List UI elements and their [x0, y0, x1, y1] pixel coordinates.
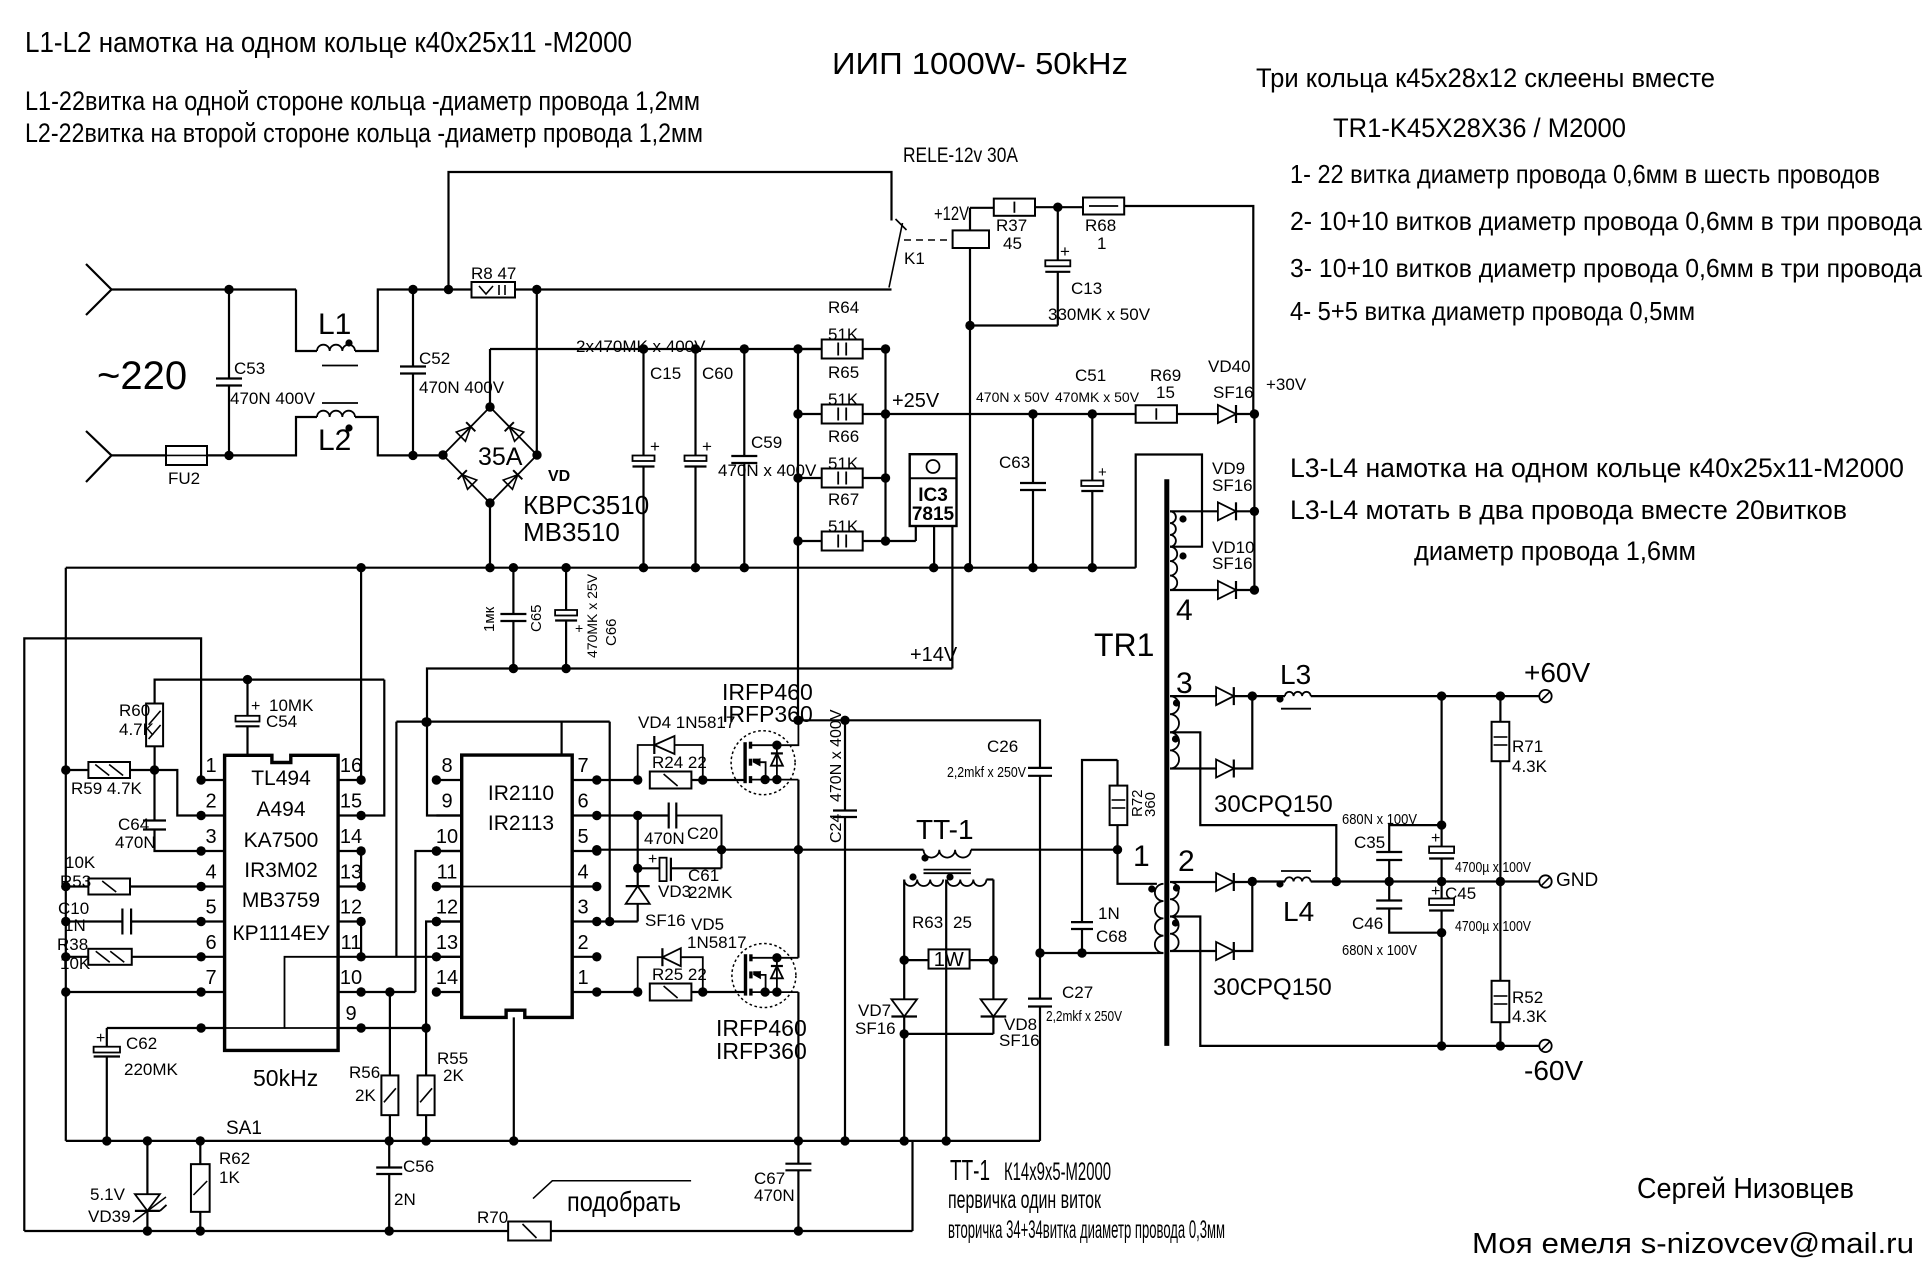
- svg-text:IRFP360: IRFP360: [716, 1038, 807, 1064]
- wire AC top line: [112, 288, 297, 290]
- svg-text:4.7K: 4.7K: [119, 720, 155, 739]
- svg-text:2,2mkf x 250V: 2,2mkf x 250V: [1046, 1008, 1122, 1025]
- svg-text:+: +: [648, 851, 657, 868]
- wire pin9 row to IR2110 pin12: [361, 1027, 426, 1029]
- svg-text:+60V: +60V: [1524, 657, 1590, 688]
- wire pin10 row to IR2110 pin10: [361, 991, 415, 993]
- svg-text:R70: R70: [477, 1208, 508, 1227]
- wire primary bottom row: [1040, 952, 1157, 954]
- transformer TR1 core: [1164, 479, 1169, 1046]
- svg-text:+25V: +25V: [892, 390, 940, 412]
- svg-text:L3-L4 мотать в два провода вме: L3-L4 мотать в два провода вместе 20витк…: [1290, 495, 1847, 525]
- svg-text:470N 400V: 470N 400V: [230, 389, 316, 408]
- wire pin11 row to IR2110 pin13: [361, 956, 460, 958]
- resistor R72: [1116, 825, 1118, 850]
- svg-text:51K: 51K: [828, 454, 859, 473]
- relay switch K1 blade: [889, 223, 903, 288]
- svg-text:L2: L2: [318, 424, 351, 457]
- wire SA1 rail: [66, 1140, 1040, 1142]
- svg-text:MB3759: MB3759: [242, 889, 320, 912]
- svg-text:C59: C59: [751, 433, 782, 452]
- svg-text:ИИП 1000W- 50kHz: ИИП 1000W- 50kHz: [832, 46, 1128, 81]
- svg-text:C54: C54: [266, 712, 297, 731]
- inductor L4: [1252, 880, 1285, 882]
- svg-text:1: 1: [577, 967, 588, 989]
- IR2110 pin stubs right: [572, 779, 597, 781]
- svg-text:4700µ x 100V: 4700µ x 100V: [1455, 918, 1531, 935]
- wire M1 source to M2 drain (half-bridge midpoint): [797, 780, 799, 958]
- svg-text:C65: C65: [528, 604, 545, 632]
- transistor Q1 IRFP460 upper MOSFET: [731, 731, 795, 795]
- svg-text:подобрать: подобрать: [567, 1186, 681, 1217]
- resistor R59: [66, 769, 89, 771]
- svg-text:C26: C26: [987, 737, 1018, 756]
- svg-text:C63: C63: [999, 453, 1030, 472]
- wire relay bypass loop: [449, 172, 892, 290]
- svg-text:C45: C45: [1445, 884, 1476, 903]
- svg-text:470N 400V: 470N 400V: [419, 378, 505, 397]
- svg-text:4700µ x 100V: 4700µ x 100V: [1455, 859, 1531, 876]
- svg-text:TR1-K45X28X36 / М2000: TR1-K45X28X36 / М2000: [1333, 113, 1626, 143]
- capacitor C67: [785, 1163, 811, 1165]
- node AC bottom junctions: [224, 451, 233, 460]
- svg-text:SF16: SF16: [1212, 476, 1253, 495]
- svg-text:C53: C53: [234, 359, 265, 378]
- wire winding2 center tap to -60V row: [1170, 917, 1539, 1046]
- resistor ladder left bus / DC+ drop: [797, 349, 799, 720]
- svg-text:VD40: VD40: [1208, 357, 1251, 376]
- svg-text:7815: 7815: [912, 504, 955, 525]
- svg-text:Моя емеля s-nizovcev@mail.ru: Моя емеля s-nizovcev@mail.ru: [1472, 1228, 1914, 1260]
- svg-text:16: 16: [340, 755, 362, 777]
- diode D1 30CPQ150 upper: [1216, 687, 1234, 705]
- wire winding4 top to VD9: [1170, 510, 1218, 512]
- capacitor C10: [66, 920, 123, 922]
- TR1 winding 1 primary: [1155, 884, 1164, 953]
- wire +14V rail segment over IR2110: [396, 720, 609, 722]
- svg-text:1K: 1K: [219, 1168, 240, 1187]
- svg-text:12: 12: [340, 897, 362, 919]
- svg-text:22MK: 22MK: [688, 883, 733, 902]
- svg-text:6: 6: [205, 932, 216, 954]
- svg-text:VD5: VD5: [691, 915, 724, 934]
- svg-text:R24 22: R24 22: [652, 753, 707, 772]
- svg-text:-60V: -60V: [1524, 1055, 1583, 1086]
- capacitor C66: [565, 568, 567, 610]
- svg-text:Сергей Низовцев: Сергей Низовцев: [1637, 1173, 1854, 1205]
- capacitor C53: [228, 290, 230, 379]
- svg-text:7: 7: [205, 967, 216, 989]
- svg-text:R63: R63: [912, 913, 943, 932]
- svg-text:TT-1: TT-1: [916, 814, 974, 845]
- transformer TT-1 secondary: [904, 880, 943, 887]
- diode VD10: [1218, 581, 1236, 599]
- inductor L2: [317, 411, 355, 417]
- svg-text:TR1: TR1: [1094, 627, 1154, 663]
- svg-text:C62: C62: [126, 1034, 157, 1053]
- wire pins 13-14 tie: [360, 851, 362, 887]
- svg-text:VD4 1N5817: VD4 1N5817: [638, 713, 735, 732]
- wire winding2 bottom to D4: [1170, 950, 1216, 952]
- inductor L1: [317, 345, 355, 351]
- svg-text:330MK x 50V: 330MK x 50V: [1048, 305, 1151, 324]
- svg-text:+: +: [575, 620, 583, 636]
- svg-text:6: 6: [577, 791, 588, 813]
- svg-text:R68: R68: [1085, 216, 1116, 235]
- svg-text:C24: C24: [828, 814, 845, 843]
- wire VD7 node to SA1 rail: [903, 1034, 905, 1141]
- svg-text:3: 3: [577, 897, 588, 919]
- svg-text:3- 10+10 витков диаметр провод: 3- 10+10 витков диаметр провода 0,6мм в …: [1290, 253, 1923, 283]
- svg-text:GND: GND: [1556, 870, 1598, 891]
- wire TL494 pin16 to gnd rail: [360, 568, 362, 780]
- svg-text:30CPQ150: 30CPQ150: [1213, 974, 1332, 1001]
- svg-text:TL494: TL494: [251, 767, 311, 790]
- svg-text:R56: R56: [349, 1063, 380, 1082]
- capacitor C54: [246, 680, 248, 716]
- inductor L3: [1252, 695, 1285, 697]
- svg-text:470N: 470N: [754, 1186, 795, 1205]
- wire +14V drop right segment: [609, 722, 611, 922]
- diode VD3: [637, 868, 639, 886]
- resistor R56: [389, 992, 391, 1076]
- svg-text:10K: 10K: [65, 853, 96, 872]
- diode D2 30CPQ150 upper pair: [1216, 760, 1234, 778]
- svg-text:7: 7: [577, 755, 588, 777]
- svg-text:RELE-12v 30A: RELE-12v 30A: [903, 144, 1018, 167]
- svg-text:470N: 470N: [115, 833, 156, 852]
- svg-text:15: 15: [1156, 383, 1175, 402]
- resistor R70: [508, 1222, 551, 1241]
- relay coil K1 dashed link: [904, 239, 953, 241]
- wire winding2 top to D3: [1170, 881, 1216, 883]
- svg-text:K1: K1: [904, 249, 925, 268]
- IC3 7815 regulator: [910, 454, 957, 526]
- svg-text:+: +: [1431, 883, 1440, 900]
- wire winding4 bottom to VD10: [1170, 589, 1218, 591]
- resistor R24: [650, 772, 692, 789]
- svg-text:45: 45: [1003, 234, 1022, 253]
- wire R59/R60 junction to pin2: [155, 770, 202, 816]
- svg-text:SF16: SF16: [855, 1019, 896, 1038]
- wire midpoint to TT-1 primary: [798, 849, 923, 851]
- IC3 right leg to +14V rail: [951, 526, 953, 669]
- svg-text:2: 2: [577, 932, 588, 954]
- terminal +60V: [1539, 690, 1551, 702]
- resistor R37: [994, 199, 1035, 216]
- svg-text:4: 4: [1176, 594, 1193, 627]
- bridge diode lower-left: [458, 470, 477, 489]
- svg-text:L3-L4 намотка на одном кольце: L3-L4 намотка на одном кольце к40х25х11-…: [1290, 453, 1904, 483]
- svg-text:C60: C60: [702, 364, 733, 383]
- wire R60 bottom junction: [154, 746, 156, 770]
- wire IR2110 pin5 row / VS midpoint: [597, 849, 799, 851]
- svg-text:4- 5+5 витка диаметр провода 0: 4- 5+5 витка диаметр провода 0,5мм: [1290, 296, 1695, 326]
- svg-text:470MK x 50V: 470MK x 50V: [1055, 389, 1140, 405]
- TL494 pin stubs right: [338, 779, 361, 781]
- wire +12V node: [970, 207, 994, 209]
- svg-text:C46: C46: [1352, 914, 1383, 933]
- svg-text:L3: L3: [1280, 659, 1311, 690]
- IR2110 pin stubs left: [436, 779, 461, 781]
- resistor R25: [597, 991, 638, 993]
- svg-text:11: 11: [341, 932, 362, 954]
- svg-text:3: 3: [205, 826, 216, 848]
- capacitor C63: [1032, 414, 1034, 483]
- svg-text:1N5817: 1N5817: [687, 933, 747, 952]
- TR1 winding 3: [1170, 696, 1179, 768]
- wire pin7 row: [66, 991, 201, 993]
- TR1 winding 2: [1170, 882, 1179, 951]
- svg-text:C15: C15: [650, 364, 681, 383]
- wire R72 bottom to winding1 top: [1118, 850, 1157, 884]
- svg-text:50kHz: 50kHz: [253, 1065, 318, 1091]
- svg-text:2K: 2K: [443, 1066, 464, 1085]
- wire R60 top to C54/pin15 line: [155, 680, 385, 704]
- svg-text:51K: 51K: [828, 325, 859, 344]
- wire bridge left vertex to AC bottom: [442, 454, 444, 457]
- wire pins 11-12 tie: [360, 922, 362, 957]
- svg-text:R66: R66: [828, 427, 859, 446]
- capacitor C35: [1389, 825, 1441, 852]
- capacitor C26: [1028, 767, 1052, 769]
- wire TT-1 center tap: [945, 880, 947, 1141]
- svg-text:220MK: 220MK: [124, 1060, 179, 1079]
- svg-text:1N: 1N: [1098, 904, 1120, 923]
- diode VD5: [638, 957, 663, 992]
- capacitor C56: [388, 1141, 390, 1168]
- svg-text:+: +: [1431, 830, 1440, 847]
- svg-text:+: +: [1060, 242, 1070, 261]
- svg-text:C51: C51: [1075, 366, 1106, 385]
- svg-text:C56: C56: [403, 1157, 434, 1176]
- svg-text:2: 2: [205, 791, 216, 813]
- svg-text:SF16: SF16: [1212, 554, 1253, 573]
- capacitor C44 4700u upper: [1440, 696, 1442, 846]
- svg-text:VD: VD: [548, 468, 570, 485]
- svg-text:2x470MK x 400V: 2x470MK x 400V: [576, 337, 706, 356]
- svg-text:R37: R37: [996, 216, 1027, 235]
- svg-text:К14х9х5-М2000: К14х9х5-М2000: [1004, 1158, 1111, 1186]
- wire DC+ rail y=349: [490, 348, 822, 350]
- svg-text:470MK x 25V: 470MK x 25V: [584, 573, 600, 658]
- svg-text:L1: L1: [318, 308, 351, 341]
- svg-text:4.3K: 4.3K: [1512, 757, 1548, 776]
- svg-text:+12V: +12V: [934, 204, 969, 225]
- wire +60V row: [1311, 695, 1539, 697]
- svg-text:4: 4: [577, 862, 588, 884]
- svg-text:4: 4: [205, 862, 216, 884]
- op-amp U2 IR2110 box: [462, 755, 573, 1017]
- bridge diode upper-right: [505, 422, 524, 441]
- svg-text:35A: 35A: [478, 443, 523, 471]
- wire R68 to +30V bus: [1124, 206, 1253, 414]
- wire TT-1 secondary left end: [903, 880, 905, 961]
- svg-text:диаметр провода 1,6мм: диаметр провода 1,6мм: [1414, 536, 1696, 566]
- TL494 internal wire pin9 to pin11 feedthrough: [225, 957, 339, 1028]
- resistor R38: [66, 956, 89, 958]
- svg-text:470N: 470N: [644, 829, 685, 848]
- svg-text:C66: C66: [603, 618, 620, 646]
- svg-text:1мк: 1мк: [481, 606, 498, 632]
- svg-text:25: 25: [953, 913, 972, 932]
- svg-text:1W: 1W: [934, 949, 964, 971]
- svg-text:R8 47: R8 47: [471, 264, 516, 283]
- svg-text:+: +: [96, 1030, 105, 1047]
- resistor R60: [146, 704, 163, 747]
- svg-text:9: 9: [345, 1003, 356, 1025]
- bridge vertex dots: [438, 450, 447, 459]
- svg-text:8: 8: [441, 755, 452, 777]
- svg-text:IC3: IC3: [918, 485, 948, 506]
- svg-text:+: +: [702, 437, 712, 456]
- wire bridge bottom to DC- rail: [489, 503, 491, 568]
- capacitor C62: [106, 1028, 108, 1047]
- svg-text:680N x 100V: 680N x 100V: [1342, 811, 1417, 828]
- svg-text:KA7500: KA7500: [244, 829, 319, 852]
- svg-text:L2-22витка на второй стороне к: L2-22витка на второй стороне кольца -диа…: [25, 118, 703, 148]
- TR1 winding 4 aux: [1136, 455, 1202, 568]
- svg-text:1: 1: [1097, 234, 1106, 253]
- wire +25V rail: [886, 413, 1136, 415]
- svg-text:МВ3510: МВ3510: [523, 517, 620, 547]
- svg-text:IR2110: IR2110: [488, 782, 554, 805]
- wire R37 to R68: [1035, 206, 1083, 208]
- op-amp U1 TL494 box: [225, 755, 339, 1050]
- svg-text:L4: L4: [1283, 896, 1314, 927]
- wire IR2110 pin6 to C20: [597, 814, 669, 816]
- svg-text:C27: C27: [1062, 983, 1093, 1002]
- resistor R63 1W: [904, 959, 928, 961]
- svg-text:VD39: VD39: [88, 1207, 131, 1226]
- capacitor C46: [1388, 882, 1390, 901]
- svg-text:R71: R71: [1512, 737, 1543, 756]
- svg-text:5: 5: [577, 826, 588, 848]
- diode VD4: [638, 745, 655, 780]
- capacitor C15: [642, 349, 644, 456]
- resistor R71: [1499, 696, 1501, 722]
- svg-text:+: +: [1098, 464, 1107, 481]
- svg-text:14: 14: [436, 967, 458, 989]
- svg-text:470N x 50V: 470N x 50V: [976, 389, 1050, 405]
- terminal -60V: [1539, 1040, 1551, 1052]
- svg-text:14: 14: [340, 826, 362, 848]
- svg-text:10: 10: [340, 967, 362, 989]
- wire +30V bus: [1253, 414, 1255, 590]
- capacitor C65: [512, 568, 514, 614]
- svg-text:51K: 51K: [828, 390, 859, 409]
- resistor ladder right bus: [884, 349, 886, 541]
- wire drain rail +310V: [798, 720, 1040, 768]
- capacitor C20: [668, 803, 670, 829]
- svg-text:IR3M02: IR3M02: [244, 859, 318, 882]
- svg-text:10: 10: [436, 826, 458, 848]
- svg-text:SF16: SF16: [645, 911, 686, 930]
- capacitor C52: [412, 290, 414, 367]
- svg-text:IR2113: IR2113: [488, 812, 554, 835]
- svg-text:R25 22: R25 22: [652, 965, 707, 984]
- wire outer left bus (TL494 pin1 return): [24, 638, 201, 1231]
- svg-text:R60: R60: [119, 701, 150, 720]
- wire bridge right vertex to AC top: [536, 290, 538, 456]
- svg-text:SF16: SF16: [1213, 383, 1254, 402]
- svg-text:C68: C68: [1096, 927, 1127, 946]
- diode VD39 zener 5.1V: [146, 1141, 148, 1194]
- svg-text:~220: ~220: [97, 354, 187, 398]
- svg-text:SA1: SA1: [226, 1118, 262, 1139]
- svg-text:470N x 400V: 470N x 400V: [828, 709, 845, 802]
- wire +14V drop to pin11 row: [395, 722, 397, 957]
- svg-text:1- 22 витка диаметр провода 0,: 1- 22 витка диаметр провода 0,6мм в шест…: [1290, 159, 1880, 189]
- wire +14V branch to IR2110 top edge: [560, 722, 562, 756]
- svg-text:30CPQ150: 30CPQ150: [1214, 791, 1333, 818]
- input arrow top: [86, 264, 112, 290]
- capacitor C27: [1039, 953, 1041, 999]
- wire M2 source to rails: [797, 992, 799, 1164]
- svg-text:R67: R67: [828, 490, 859, 509]
- svg-text:12: 12: [436, 897, 458, 919]
- svg-text:C64: C64: [118, 815, 149, 834]
- capacitor C24: [844, 720, 846, 810]
- wire IR2110 notch to SA1 rail: [513, 1017, 515, 1141]
- wire R8 to relay switch: [515, 288, 892, 290]
- svg-text:FU2: FU2: [168, 469, 200, 488]
- capacitor C61: [637, 816, 639, 869]
- bridge diode lower-right: [503, 470, 522, 489]
- svg-text:Три кольца к45х28х12 склеены в: Три кольца к45х28х12 склеены вместе: [1256, 63, 1715, 93]
- svg-text:1: 1: [205, 755, 216, 777]
- diode D4 30CPQ150 lower: [1216, 942, 1234, 960]
- input arrow bottom: [86, 431, 112, 455]
- +14V rail: [427, 669, 952, 816]
- wire VD7-VD8 cathodes: [904, 1033, 993, 1035]
- IC3 middle leg to gnd rail: [933, 526, 935, 568]
- wire winding3 top to D1: [1170, 695, 1216, 697]
- svg-text:4.3K: 4.3K: [1512, 1007, 1548, 1026]
- IR2110 internal feedthrough pin11-pin4: [462, 886, 573, 888]
- capacitor C60: [694, 349, 696, 456]
- svg-text:R59 4.7K: R59 4.7K: [71, 779, 143, 798]
- TL494 pin 9 stub: [338, 1027, 361, 1029]
- diode VD40: [1177, 413, 1218, 415]
- capacitor C13: [1057, 207, 1059, 260]
- wire winding3 center tap to GND row: [1170, 732, 1336, 881]
- TL494 pin stubs left: [201, 779, 225, 781]
- svg-text:1N: 1N: [64, 916, 86, 935]
- DC- / primary ground rail y=567.7: [66, 567, 1136, 569]
- svg-text:VD7: VD7: [858, 1001, 891, 1020]
- resistor R52: [1499, 882, 1501, 981]
- svg-text:11: 11: [437, 862, 458, 884]
- resistor R55: [425, 1028, 427, 1076]
- svg-text:5: 5: [205, 897, 216, 919]
- wire TT-1 secondary right end: [986, 878, 993, 880]
- svg-text:VD3: VD3: [658, 882, 691, 901]
- wire IR2110 pin3 row: [597, 920, 638, 922]
- svg-text:A494: A494: [256, 798, 305, 821]
- terminal GND: [1539, 875, 1551, 887]
- svg-text:C20: C20: [687, 824, 718, 843]
- svg-text:первичка один виток: первичка один виток: [948, 1186, 1102, 1214]
- capacitor C68: [1082, 760, 1118, 922]
- capacitor C59: [743, 349, 745, 456]
- diode VD7: [903, 960, 905, 999]
- svg-text:ТТ-1: ТТ-1: [950, 1155, 990, 1187]
- svg-text:L1-22витка на одной стороне к: L1-22витка на одной стороне кольца -диам…: [25, 86, 700, 116]
- svg-text:10K: 10K: [60, 954, 91, 973]
- bridge rectifier VD KBPC3510 diamond: [443, 407, 537, 503]
- transformer TT-1 primary 1 turn: [924, 850, 971, 858]
